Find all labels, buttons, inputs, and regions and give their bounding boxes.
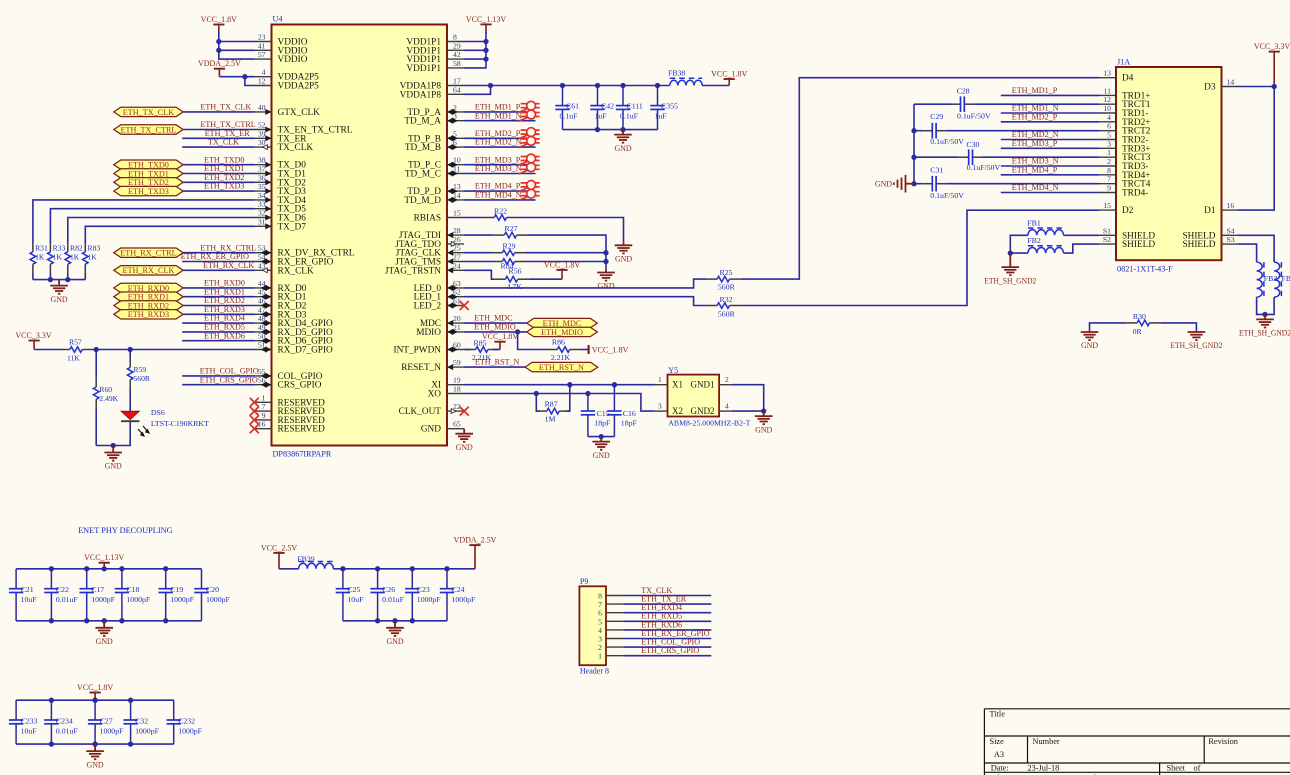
wire: [464, 384, 655, 386]
svg-text:GND: GND: [386, 637, 403, 646]
svg-text:6: 6: [1107, 122, 1111, 131]
wire: [588, 436, 615, 438]
junction: [92, 698, 97, 703]
port ETH_RXD3: [114, 310, 183, 319]
svg-text:ETH_CRS_GPIO: ETH_CRS_GPIO: [200, 375, 258, 384]
wire: [464, 270, 495, 279]
svg-text:23-Jul-18: 23-Jul-18: [1028, 763, 1060, 772]
svg-text:Size: Size: [990, 737, 1005, 746]
resistor R56 4.7K: [495, 278, 506, 280]
svg-text:VCC_1.8V: VCC_1.8V: [201, 15, 237, 24]
wire: [464, 85, 670, 87]
wire: [219, 32, 255, 59]
svg-text:C21: C21: [21, 585, 34, 594]
svg-text:2: 2: [725, 375, 729, 384]
svg-text:ETH_TX_CTRL: ETH_TX_CTRL: [120, 125, 176, 134]
svg-text:8: 8: [1107, 166, 1111, 175]
wire: [464, 86, 491, 95]
svg-text:TD_M_A: TD_M_A: [404, 117, 441, 127]
wire: [464, 199, 536, 201]
svg-text:1000pF: 1000pF: [178, 726, 202, 735]
U4 pin 1 RESERVED: [255, 393, 326, 408]
no-connect X: [250, 415, 259, 424]
wire: [464, 217, 483, 219]
wire: [623, 655, 711, 657]
junction: [216, 39, 221, 44]
wire: [183, 296, 254, 298]
capacitor C29 0.1uF/50V: [923, 130, 932, 132]
wire: [526, 252, 607, 254]
capacitor C111 0.1uF: [622, 86, 624, 106]
capacitor C31 0.1uF/50V: [923, 183, 932, 185]
svg-text:R57: R57: [69, 338, 82, 347]
svg-text:65: 65: [453, 420, 461, 429]
svg-text:ETH_MD1_N: ETH_MD1_N: [475, 111, 522, 120]
wire: [464, 173, 536, 175]
junction: [483, 48, 488, 53]
svg-text:0.1uF/50V: 0.1uF/50V: [930, 191, 964, 200]
junction: [620, 127, 625, 132]
svg-text:of: of: [1194, 763, 1201, 772]
U4 pin 52 TX_EN_TX_CTRL: [255, 121, 353, 136]
U4 pin 37 TX_D1: [255, 165, 307, 180]
svg-text:41: 41: [258, 41, 266, 50]
svg-text:S2: S2: [1103, 235, 1111, 244]
svg-text:27: 27: [453, 253, 461, 262]
J1A pin 12 TRCT1: [1099, 95, 1151, 110]
wire: [1001, 165, 1099, 167]
svg-text:TX_CLK: TX_CLK: [278, 143, 314, 153]
junction: [49, 698, 54, 703]
wire: [914, 103, 951, 105]
junction: [119, 566, 124, 571]
svg-text:ETH_TX_CLK: ETH_TX_CLK: [200, 103, 251, 112]
resistor R60 2.49K: [95, 378, 97, 387]
wire R59 branch: [129, 350, 131, 359]
wire to J1A D2: [740, 210, 1099, 305]
svg-text:29: 29: [453, 41, 461, 50]
svg-text:12: 12: [1103, 95, 1111, 104]
U4 pin 30 TX_CLK: [255, 138, 314, 153]
svg-text:DP83867IRPAPR: DP83867IRPAPR: [273, 450, 332, 459]
wire: [464, 331, 527, 333]
power port VCC_2.5V: [278, 553, 280, 569]
svg-text:R56: R56: [509, 267, 522, 276]
wire: [623, 612, 711, 614]
svg-text:10: 10: [1103, 104, 1111, 113]
ground GND (R30 left): [1081, 331, 1099, 340]
J1A pin S1 SHIELD: [1099, 226, 1155, 241]
wire: [93, 349, 255, 351]
wire S3: [1239, 244, 1257, 262]
U4 pin 41 VDDIO: [255, 41, 308, 56]
wire: [129, 389, 131, 411]
svg-text:J1A: J1A: [1117, 58, 1130, 67]
crystal Y5 ABM8-25.000MHZ-B2-T body: [668, 375, 720, 417]
U4 pin 61 LED_2: [414, 297, 464, 312]
junction: [599, 434, 604, 439]
wire: [219, 41, 255, 43]
U4 pin 19 XI: [431, 376, 464, 391]
svg-text:S3: S3: [1227, 235, 1235, 244]
U4 pin 3 TD_M_A: [404, 112, 464, 127]
J1A pin 4 TRD2+: [1099, 113, 1151, 128]
wire S2: [1064, 244, 1100, 253]
power port VCC_1.8V (R56): [561, 270, 563, 279]
svg-text:ETH_MD3_N: ETH_MD3_N: [475, 164, 522, 173]
svg-text:R32: R32: [720, 295, 733, 304]
U4 pin 65 GND: [421, 420, 464, 435]
junction: [92, 741, 97, 746]
svg-text:18pF: 18pF: [621, 418, 638, 427]
svg-text:C26: C26: [382, 585, 395, 594]
junction: [560, 83, 565, 88]
junction: [119, 618, 124, 623]
J1A pin 3 TRD3+: [1099, 139, 1151, 154]
wire MDIO pullup: [518, 332, 547, 350]
svg-text:52: 52: [258, 121, 266, 130]
svg-text:11K: 11K: [67, 353, 80, 362]
resistor R84: [492, 261, 503, 263]
junction: [515, 329, 520, 334]
svg-text:1M: 1M: [545, 415, 556, 424]
wire D1: [1239, 87, 1275, 211]
wire: [464, 366, 525, 368]
svg-text:C233: C233: [21, 716, 38, 725]
wire: [623, 629, 711, 631]
svg-text:1K: 1K: [88, 253, 98, 262]
svg-text:ETH_MDC: ETH_MDC: [474, 314, 512, 323]
svg-text:0.01uF: 0.01uF: [56, 595, 79, 604]
svg-text:CRS_GPIO: CRS_GPIO: [278, 381, 322, 391]
wire: [183, 287, 254, 289]
junction: [612, 382, 617, 387]
port ETH_TXD1: [114, 169, 183, 178]
capacitor C24 1000pF: [446, 569, 448, 589]
junction: [216, 48, 221, 53]
junction: [567, 382, 572, 387]
U4 pin 21 MDIO: [416, 323, 464, 338]
svg-text:FB2: FB2: [1027, 236, 1041, 245]
svg-text:VCC_1.13V: VCC_1.13V: [84, 553, 124, 562]
resistor R22: [483, 217, 494, 219]
svg-text:Header 8: Header 8: [580, 667, 609, 676]
junction: [48, 277, 53, 282]
U4 pin 39 TX_ER: [255, 129, 308, 144]
capacitor C17 1000pF: [86, 569, 88, 589]
svg-text:X1: X1: [672, 380, 683, 390]
svg-text:R60: R60: [99, 385, 112, 394]
svg-text:GND: GND: [456, 443, 473, 452]
junction: [102, 618, 107, 623]
svg-text:FB4: FB4: [1282, 274, 1290, 283]
P9 pin 7: [598, 600, 623, 609]
ferrite bead FB4: [1274, 262, 1280, 297]
svg-text:18: 18: [453, 385, 461, 394]
U4 pin 33 TX_D5: [255, 200, 307, 215]
J1A pin S3 SHIELD: [1182, 235, 1238, 250]
wire LED_1: [464, 297, 706, 306]
svg-text:S1: S1: [1103, 226, 1111, 235]
svg-text:VCC_1.8V: VCC_1.8V: [77, 683, 113, 692]
svg-text:ETH_TXD0: ETH_TXD0: [204, 155, 244, 164]
capacitor C30 0.1uF/50V: [960, 156, 969, 158]
J1A pin 9 TRD4-: [1099, 184, 1148, 199]
svg-text:TX_CLK: TX_CLK: [208, 138, 239, 147]
wire: [945, 183, 1099, 185]
J1A pin 5 TRD2-: [1099, 131, 1148, 146]
svg-text:TRD4-: TRD4-: [1122, 189, 1148, 199]
port ETH_RX_CLK: [114, 266, 183, 275]
svg-text:ETH_SH_GND2: ETH_SH_GND2: [1170, 341, 1222, 350]
wire: [464, 234, 494, 236]
diff-pair marker: [519, 101, 540, 112]
svg-text:C111: C111: [627, 102, 643, 111]
svg-text:VDDIO: VDDIO: [278, 55, 308, 65]
junction: [65, 277, 70, 282]
svg-text:RX_D7_GPIO: RX_D7_GPIO: [278, 346, 334, 356]
svg-text:17: 17: [453, 77, 461, 86]
J1A pin 14 D3: [1204, 78, 1238, 93]
svg-text:ETH_TXD3: ETH_TXD3: [128, 187, 169, 196]
svg-text:C27: C27: [100, 716, 113, 725]
capacitor C28 0.1uF/50V: [952, 103, 961, 105]
no-connect X: [250, 424, 259, 433]
U4 pin 43 RX_CLK: [255, 261, 314, 276]
Y5 pin 1 X1: [655, 384, 668, 386]
svg-text:D2: D2: [1122, 206, 1134, 216]
ferrite bead FB2: [1028, 247, 1064, 253]
svg-text:VDDA1P8: VDDA1P8: [400, 90, 442, 100]
U4 pin 40 GTX_CLK: [255, 103, 321, 118]
junction: [84, 618, 89, 623]
U4 pin 24 JTAG_TRSTN: [385, 261, 464, 276]
resistor R59 560R: [129, 359, 131, 368]
svg-text:25: 25: [453, 244, 461, 253]
wire: [529, 278, 562, 280]
junction: [911, 155, 916, 160]
port ETH_RXD2: [114, 301, 183, 310]
junction: [128, 741, 133, 746]
svg-text:35: 35: [258, 182, 266, 191]
svg-text:0.01uF: 0.01uF: [56, 726, 79, 735]
wire bottom cap bus: [563, 129, 658, 131]
wire LED_0: [464, 279, 706, 288]
svg-text:Sheet: Sheet: [1167, 763, 1186, 772]
port ETH_RXD0: [114, 283, 183, 292]
U4 pin 29 VDD1P1: [406, 41, 464, 56]
U4 pin 2 TD_P_A: [407, 103, 464, 118]
wire: [33, 200, 255, 243]
junction: [92, 698, 97, 703]
svg-text:560R: 560R: [134, 374, 151, 383]
wire: [219, 49, 255, 51]
capacitor C15 18pF: [587, 394, 589, 412]
wire: [1001, 112, 1099, 114]
U4 pin 4 VDDA2P5: [255, 68, 320, 83]
capacitor C23 1000pF: [411, 569, 413, 589]
resistor R86 2.21K: [547, 349, 558, 351]
U4 pin 53 RX_DV_RX_CTRL: [255, 244, 355, 259]
svg-text:ETH_TXD2: ETH_TXD2: [204, 173, 244, 182]
U4 pin 31 TX_D7: [255, 217, 307, 232]
svg-text:0.1uF/50V: 0.1uF/50V: [957, 112, 991, 121]
wire: [32, 273, 34, 280]
svg-text:ETH_COL_GPIO: ETH_COL_GPIO: [200, 367, 259, 376]
wire: [1001, 192, 1099, 194]
capacitor C355 1uF: [657, 86, 659, 106]
wire: [96, 421, 130, 445]
svg-text:C29: C29: [930, 112, 943, 121]
ground GND (crystal): [755, 411, 773, 424]
ground GND (bank): [86, 744, 104, 759]
capacitor C234 0.01uF: [50, 700, 52, 720]
U4 pin 15 RBIAS: [414, 209, 464, 224]
svg-text:40: 40: [258, 103, 266, 112]
wire: [1257, 297, 1275, 314]
svg-text:20: 20: [453, 314, 461, 323]
svg-text:VCC_1.8V: VCC_1.8V: [544, 260, 580, 269]
wire: [526, 261, 607, 263]
wire D3: [1239, 86, 1275, 88]
wire: [183, 190, 254, 192]
svg-text:ETH_TX_ER: ETH_TX_ER: [205, 129, 251, 138]
ground GND (TX_D pulldowns): [50, 280, 68, 294]
wire: [219, 76, 254, 78]
U4 pin 36 TX_D2: [255, 173, 307, 188]
svg-text:GND: GND: [593, 451, 610, 460]
wire: [914, 156, 960, 158]
svg-text:C61: C61: [566, 102, 579, 111]
wire S4: [1239, 235, 1275, 262]
U4 pin 34 TX_D4: [255, 191, 307, 206]
svg-text:GND2: GND2: [691, 406, 715, 416]
Y5 pin 4 GND2: [719, 410, 732, 412]
wire: [464, 41, 486, 43]
power port VCC_1.8V (R86) sideways: [587, 345, 589, 354]
svg-text:ETH_MD2_N: ETH_MD2_N: [475, 138, 522, 147]
U4 pin 6 TD_M_B: [405, 138, 464, 153]
svg-text:14: 14: [1227, 78, 1235, 87]
svg-text:32: 32: [258, 209, 266, 218]
U4 pin 17 VDDA1P8: [400, 77, 464, 92]
svg-text:ETH_TX_CTRL: ETH_TX_CTRL: [200, 120, 255, 129]
svg-text:0.1uF: 0.1uF: [620, 112, 639, 121]
capacitor C27 1000pF: [94, 700, 96, 720]
P9 pin 5: [598, 617, 623, 626]
wire: [493, 349, 500, 351]
svg-text:ETH_TXD1: ETH_TXD1: [204, 164, 244, 173]
svg-text:Title: Title: [990, 710, 1006, 719]
wire: [1090, 323, 1127, 331]
J1A pin 16 D1: [1204, 201, 1238, 216]
svg-text:ETH_RX_ER_GPIO: ETH_RX_ER_GPIO: [181, 252, 250, 261]
wire: [1010, 252, 1028, 254]
junction: [483, 56, 488, 61]
no-connect X LED_2: [460, 301, 469, 310]
junction: [595, 127, 600, 132]
svg-text:XO: XO: [428, 390, 442, 400]
J1A pin 15 D2: [1099, 201, 1134, 216]
P9 pin 6: [598, 609, 623, 618]
svg-text:1000pF: 1000pF: [100, 726, 124, 735]
junction: [102, 566, 107, 571]
svg-text:R83: R83: [88, 244, 101, 253]
svg-text:0R: 0R: [1133, 327, 1143, 336]
svg-text:VDD1P1: VDD1P1: [406, 64, 441, 74]
U4 pin 59 RESET_N: [401, 358, 464, 373]
svg-text:C42: C42: [601, 102, 614, 111]
capacitor C19 1000pF: [165, 569, 167, 589]
svg-text:FB3: FB3: [1264, 274, 1278, 283]
power port VCC_1.13V (bank): [103, 563, 105, 569]
resistor R57 11K: [59, 349, 70, 351]
svg-text:SHIELD: SHIELD: [1122, 240, 1155, 250]
U4 pin 54 RX_ER_GPIO: [255, 253, 334, 268]
svg-text:C234: C234: [56, 716, 73, 725]
U4 pin 55 COL_GPIO: [255, 367, 323, 382]
wire bank top bus: [16, 568, 201, 570]
junction: [534, 391, 539, 396]
svg-text:10uF: 10uF: [21, 726, 38, 735]
svg-text:2.49K: 2.49K: [99, 394, 118, 403]
P9 pin 8: [598, 592, 623, 601]
U4 pin 42 VDD1P1: [406, 50, 464, 65]
svg-text:560R: 560R: [718, 309, 736, 318]
svg-text:D3: D3: [1204, 83, 1216, 93]
svg-text:5: 5: [1107, 131, 1111, 140]
U4 pin 57 VDDIO: [255, 50, 308, 65]
svg-text:1K: 1K: [53, 253, 63, 262]
U4 pin 44 RX_D0: [255, 279, 307, 294]
resistor R85 2.21K: [465, 349, 476, 351]
svg-text:0.1uF/50V: 0.1uF/50V: [967, 163, 1001, 172]
wire: [623, 595, 711, 597]
svg-text:C18: C18: [126, 585, 139, 594]
wire: [183, 181, 254, 183]
svg-text:P9: P9: [580, 577, 588, 586]
title block frame: [984, 709, 1290, 775]
svg-text:10uF: 10uF: [21, 595, 38, 604]
svg-text:R29: R29: [503, 242, 516, 251]
wire: [464, 164, 536, 166]
U4 pin 49 RX_D5_GPIO: [255, 323, 334, 338]
junction: [49, 741, 54, 746]
junction: [410, 618, 415, 623]
svg-text:R25: R25: [720, 268, 733, 277]
wire: [464, 146, 536, 148]
wire bank bottom bus: [343, 620, 447, 622]
wire bank bottom bus: [16, 743, 174, 745]
svg-text:4: 4: [725, 402, 729, 411]
J1A pin 8 TRD4+: [1099, 166, 1151, 181]
diff-pair marker: [519, 137, 540, 148]
svg-text:Revision: Revision: [1208, 737, 1238, 746]
wire: [702, 85, 729, 87]
wire bank top bus: [16, 699, 174, 701]
wire: [279, 568, 299, 570]
junction: [163, 566, 168, 571]
wire: [182, 146, 254, 148]
svg-text:31: 31: [258, 217, 266, 226]
svg-text:DS6: DS6: [151, 408, 165, 417]
svg-text:1000pF: 1000pF: [452, 595, 476, 604]
wire R60 branch: [95, 350, 97, 379]
U4 pin 18 XO: [428, 385, 464, 400]
svg-text:58: 58: [453, 59, 461, 68]
svg-text:36: 36: [258, 173, 266, 182]
junction: [585, 391, 590, 396]
